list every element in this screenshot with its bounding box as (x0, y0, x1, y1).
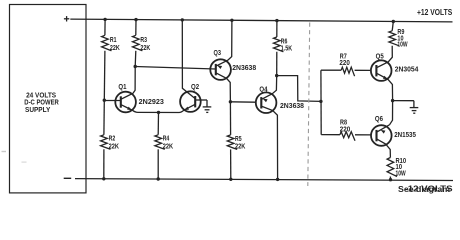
wire R5 bottom lead (230, 149, 232, 179)
node top rail / Q2 collector (181, 18, 184, 21)
svg-text:2N3638: 2N3638 (232, 65, 256, 72)
svg-text:2N2923: 2N2923 (139, 99, 164, 106)
svg-text:Q5: Q5 (376, 53, 384, 60)
svg-text:1.5K: 1.5K (281, 46, 292, 53)
resistor R1 (102, 35, 112, 50)
minus terminal (64, 177, 71, 179)
svg-text:Q1: Q1 (118, 84, 126, 91)
transistor Q5 2N3054 (371, 60, 392, 81)
wire top +12V rail (70, 19, 452, 22)
svg-text:24 VOLTS: 24 VOLTS (26, 92, 56, 99)
node Q1 collector / Q3 base (134, 65, 137, 68)
svg-text:22K: 22K (109, 143, 119, 150)
svg-text:R8: R8 (340, 120, 347, 127)
transistor Q4 2N3638 (256, 92, 277, 113)
resistor R5 (227, 135, 237, 150)
node Q3 collector / Q4 base / R5 (229, 100, 232, 103)
svg-text:Q2: Q2 (191, 84, 199, 91)
svg-text:22K: 22K (140, 45, 150, 52)
wire R10 bottom lead (389, 177, 391, 180)
wire Q4 base (230, 101, 256, 103)
scan artifact smudge 2 (22, 162, 27, 163)
node emitter bus / R4 (157, 111, 160, 114)
node bottom rail / R10 (389, 178, 392, 181)
wire Q3 base (135, 67, 216, 70)
wire Q1 base (104, 100, 121, 102)
svg-text:2N3054: 2N3054 (395, 67, 419, 74)
transistor Q1 2N2923 (115, 92, 136, 113)
svg-text:R3: R3 (140, 37, 147, 44)
svg-text:22K: 22K (163, 143, 173, 150)
node bottom rail / R4 (157, 177, 160, 180)
svg-text:22K: 22K (110, 45, 120, 52)
node bottom rail / R2 (102, 177, 105, 180)
resistor R7 (341, 67, 354, 76)
wire R1 top lead (104, 19, 106, 35)
svg-text:220: 220 (339, 60, 349, 67)
wire Q1-Q2 emitter bus (138, 111, 179, 113)
svg-text:Q6: Q6 (375, 116, 383, 123)
svg-text:+12 VOLTS: +12 VOLTS (417, 8, 453, 17)
wire R6 top lead (276, 21, 278, 37)
svg-text:R6: R6 (281, 38, 288, 45)
wire R3 top lead (135, 20, 137, 36)
wire R4 top lead (157, 112, 159, 134)
wire R7 right lead to Q5 base (355, 69, 371, 71)
wire R9 top lead (392, 22, 393, 31)
svg-text:2N3638: 2N3638 (280, 103, 304, 110)
resistor R2 (101, 135, 111, 150)
svg-text:R2: R2 (109, 136, 116, 143)
wire R1 bottom to base node (103, 51, 106, 100)
svg-text:R5: R5 (235, 136, 242, 143)
transistor Q3 2N3638 (210, 59, 231, 80)
resistor R3 (133, 35, 143, 50)
wire bottom -12V rail (75, 179, 453, 181)
resistor R9 (389, 31, 399, 46)
svg-text:220: 220 (340, 127, 350, 134)
node top rail / Q3 emitter (230, 19, 233, 22)
transistor Q6 2N1535 (371, 125, 392, 146)
wire R8 left lead (321, 134, 340, 136)
transistor Q2 2N2923 (180, 91, 201, 112)
resistor R8 (340, 132, 355, 141)
wire Q2 base to ground (195, 99, 207, 101)
scan artifact smudge (2, 151, 7, 152)
wire R6 bottom lead (276, 52, 278, 76)
wire R7 left lead (321, 69, 341, 71)
wire Q6 emitter to common node (390, 101, 393, 125)
svg-text:R4: R4 (163, 136, 170, 143)
24V d-c power supply box (10, 5, 87, 193)
plus terminal (64, 18, 69, 20)
node drive / R7-R8 tie (319, 100, 322, 103)
svg-text:22K: 22K (235, 144, 245, 151)
svg-text:2N1535: 2N1535 (394, 132, 416, 139)
wire R3 bottom to Q1 collector node (134, 51, 137, 67)
svg-text:Q4: Q4 (259, 86, 267, 93)
resistor R4 (155, 135, 165, 150)
node R6 / Q4 emitter / drive (275, 74, 278, 77)
wire drive from Q4 emitter node (277, 76, 321, 102)
ground at output common (413, 101, 415, 108)
node top rail / R9 (392, 20, 395, 23)
node bottom rail / Q4 collector (276, 178, 279, 181)
wire R2 bottom lead (103, 149, 105, 179)
svg-text:D-C POWER: D-C POWER (24, 99, 59, 106)
wire R8 right lead to Q6 base (355, 134, 371, 136)
node top rail / R6 (275, 19, 278, 22)
wire R5 top lead (229, 102, 231, 135)
svg-text:10W: 10W (397, 42, 407, 49)
wire Q2 collector to rail (182, 20, 195, 99)
svg-text:Q3: Q3 (214, 50, 222, 57)
wire R7-R8 tie (320, 70, 322, 134)
svg-text:10W: 10W (396, 171, 406, 178)
dashed section separator (308, 23, 310, 187)
wire common to ground (393, 100, 414, 102)
node top rail / R1 (103, 18, 106, 21)
node Q5 emitter / Q6 emitter / common (391, 99, 394, 102)
svg-text:R1: R1 (110, 37, 117, 44)
ground at Q2 base (206, 100, 208, 107)
svg-text:SUPPLY: SUPPLY (25, 107, 51, 114)
wire R2 top lead (103, 100, 105, 135)
resistor R10 (387, 158, 397, 177)
resistor R6 (274, 37, 284, 52)
node Q1 base divider (103, 99, 106, 102)
node top rail / R3 (134, 18, 137, 21)
svg-text:-12 VOLTS: -12 VOLTS (405, 184, 454, 193)
wire R4 bottom lead (157, 149, 159, 179)
node bottom rail / R5 (229, 178, 232, 181)
